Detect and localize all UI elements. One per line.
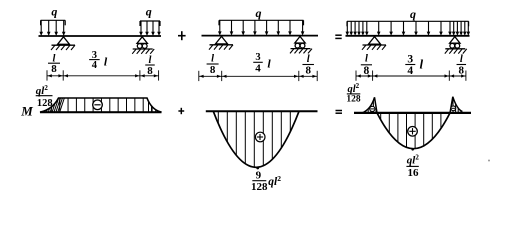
beam 1 dim arrows seg2 xyxy=(64,74,68,77)
svg-text:q: q xyxy=(146,5,152,19)
svg-text:l: l xyxy=(104,55,108,69)
svg-text:l: l xyxy=(419,56,423,71)
svg-text:8: 8 xyxy=(459,65,465,77)
svg-text:ql2: ql2 xyxy=(36,84,49,97)
beam 3 line xyxy=(346,35,470,37)
beam 3 dim tick 4 xyxy=(465,71,467,81)
svg-text:q: q xyxy=(256,6,262,20)
beam 3 dim tick 3 xyxy=(448,71,450,81)
svg-text:8: 8 xyxy=(210,64,216,76)
svg-text:128: 128 xyxy=(346,94,361,104)
beam 2 line xyxy=(202,35,319,37)
beam 2 dim tick 3 xyxy=(298,71,300,81)
svg-text:8: 8 xyxy=(51,63,57,75)
beam 1 left distributed load q xyxy=(41,19,66,21)
moment diagram 3 right spike outline xyxy=(450,97,462,113)
svg-text:8: 8 xyxy=(364,65,370,77)
moment 3 plus symbol xyxy=(408,127,418,137)
beam 1 dim arrows seg3 xyxy=(141,74,145,77)
beam 2 dim arrows seg1 xyxy=(199,75,203,78)
beam 2 dimension line xyxy=(199,75,317,77)
svg-text:9: 9 xyxy=(256,169,262,181)
equals sign beam row xyxy=(335,34,341,36)
svg-text:l: l xyxy=(365,54,368,65)
moment diagram 2 baseline xyxy=(206,110,318,112)
svg-text:l: l xyxy=(211,54,214,65)
svg-text:ql2: ql2 xyxy=(407,154,420,167)
beam 1 dim tick 1 xyxy=(46,70,48,80)
beam 1 dim tick 3 xyxy=(139,70,141,80)
beam 2 dim arrows seg2 xyxy=(222,75,226,78)
beam 2 distributed load q xyxy=(219,19,304,21)
moment 1 minus symbol xyxy=(93,100,103,110)
svg-text:q: q xyxy=(51,5,57,19)
stray scan dot xyxy=(488,160,490,162)
beam 1 dim arrows seg1 xyxy=(48,74,52,77)
svg-text:q: q xyxy=(410,7,416,21)
svg-text:4: 4 xyxy=(92,60,98,71)
beam 3 roller support xyxy=(450,37,460,44)
svg-text:4: 4 xyxy=(255,62,261,74)
beam 2 dim tick 1 xyxy=(198,71,200,81)
svg-text:ql2: ql2 xyxy=(268,174,281,188)
equals sign moment row xyxy=(336,110,343,112)
svg-text:ql2: ql2 xyxy=(348,82,360,95)
svg-text:4: 4 xyxy=(407,65,413,77)
moment diagram 1 baseline xyxy=(40,111,162,113)
plus sign beam row xyxy=(178,35,186,37)
moment diagram 1 outline xyxy=(40,98,162,112)
beam 1 dimension line xyxy=(47,75,159,77)
svg-text:M: M xyxy=(20,104,33,119)
beam 1 dim tick 4 xyxy=(158,70,160,80)
beam 1 right distributed load q xyxy=(140,20,160,22)
beam 3 dim tick 1 xyxy=(355,71,357,81)
beam 2 dim tick 4 xyxy=(316,71,318,81)
beam 1 line xyxy=(39,35,162,37)
beam 3 distributed load q xyxy=(347,20,469,22)
beam 2 dim arrows seg3 xyxy=(299,75,303,78)
moment 2 plus symbol xyxy=(255,132,265,142)
svg-text:8: 8 xyxy=(305,65,311,77)
beam 3 dim tick 2 xyxy=(372,71,374,81)
moment diagram 2 parabola outline xyxy=(213,111,299,167)
plus sign moment row xyxy=(178,110,184,112)
moment diagram 3 hatching xyxy=(363,97,376,113)
moment 3 right spike minus symbol xyxy=(451,106,456,111)
beam 1 pin support A xyxy=(58,37,70,45)
beam 1 dim tick 2 xyxy=(62,70,64,80)
svg-text:16: 16 xyxy=(408,167,420,179)
svg-text:l: l xyxy=(267,57,271,71)
beam 2 dim tick 2 xyxy=(221,71,223,81)
moment diagram 3 baseline xyxy=(354,112,471,114)
beam 3 dim arrows seg3 xyxy=(450,74,454,77)
beam 2 pin support xyxy=(216,36,228,44)
moment diagram 3 parabola outline xyxy=(377,113,450,149)
beam 3 pin support xyxy=(369,37,381,45)
svg-text:l: l xyxy=(460,54,463,65)
moment 3 vertex dot xyxy=(411,148,414,151)
moment diagram 2 hatching xyxy=(218,111,290,169)
moment 2 vertex dot xyxy=(256,167,259,170)
moment diagram 3 left spike outline xyxy=(362,97,377,113)
beam 1 roller support B xyxy=(137,37,147,44)
beam 3 dim arrows seg1 xyxy=(357,74,361,77)
moment 3 left spike minus symbol xyxy=(370,106,375,111)
moment diagram 1 hatching xyxy=(41,96,160,113)
beam 2 roller support xyxy=(295,36,305,43)
svg-text:8: 8 xyxy=(147,65,153,77)
beam 3 dimension line xyxy=(356,75,466,77)
beam 3 dim arrows seg2 xyxy=(373,74,377,77)
svg-text:128: 128 xyxy=(251,181,268,193)
svg-text:3: 3 xyxy=(407,54,413,66)
